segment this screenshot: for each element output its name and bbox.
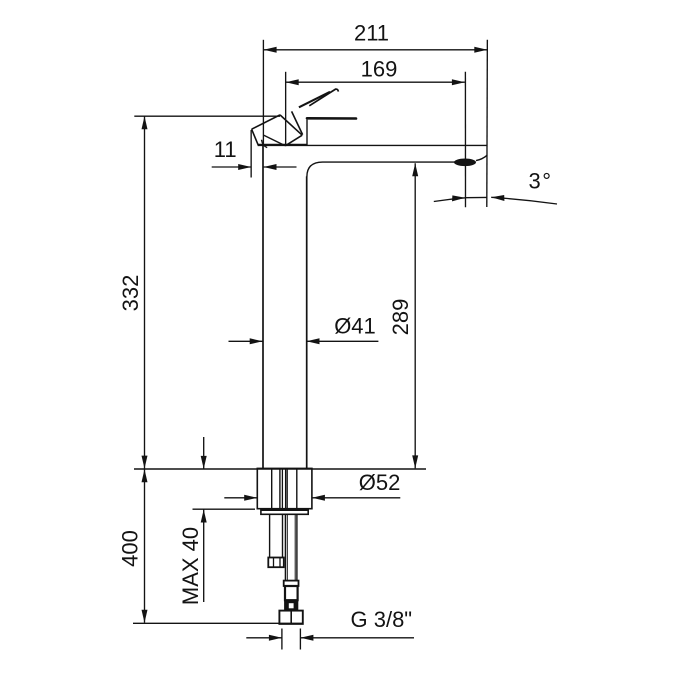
G3/8 nut center line <box>290 612 292 624</box>
spout underside corner arc <box>307 162 323 177</box>
stud nut <box>268 558 284 568</box>
flange internal line 5 <box>286 470 288 509</box>
dimension MAX40 lower line <box>203 510 205 603</box>
svg-text:332: 332 <box>118 275 143 312</box>
flange internal line 3 <box>281 470 283 509</box>
dimension 169 line <box>286 81 465 83</box>
hose fitting body <box>285 586 298 600</box>
counter line <box>134 468 426 470</box>
dimension G3/8 witness right <box>299 629 301 650</box>
hose crimp collar <box>284 581 299 586</box>
svg-text:MAX 40: MAX 40 <box>178 527 203 605</box>
flange internal line 6 <box>296 470 298 509</box>
stud nut facet line 2 <box>279 558 281 567</box>
body step under lever <box>306 120 308 146</box>
extension line 211 right / spout tip face / 3deg line <box>486 40 489 207</box>
dimension G3/8 arrow right (pointing left) <box>300 635 313 641</box>
angle 3deg arc right segment <box>491 197 557 204</box>
dimension G3/8 arrow left (pointing right) <box>269 635 282 641</box>
extension line 211 left <box>262 40 264 146</box>
faucet riser right edge <box>306 176 308 468</box>
dimension MAX40 arrow up <box>201 510 207 523</box>
handle bottom thick line <box>258 144 306 146</box>
dimension 332 arrow up <box>142 116 148 129</box>
dimension 11 arrow right (pointing left) <box>264 164 277 170</box>
dimension G3/8 witness left <box>281 629 283 650</box>
handle interior line <box>264 135 285 145</box>
dimension D41 left tail <box>229 340 263 342</box>
dimension G3/8 left tail <box>246 637 282 639</box>
handle edge top-right A-E <box>280 115 302 135</box>
supply hose inner right <box>294 514 296 580</box>
hose thread section dark <box>284 600 298 610</box>
dimension 289 arrow down <box>412 455 418 468</box>
hose end datum line <box>133 622 303 624</box>
dimension D52 right tail <box>312 497 400 499</box>
angle 3deg arrow left (pointing right at line) <box>452 195 465 201</box>
dimension 289 line <box>414 163 416 468</box>
dimension 11 left tail <box>212 166 252 168</box>
svg-text:289: 289 <box>388 299 413 336</box>
dimension 11 witness line <box>250 130 252 178</box>
dimension 289 arrow up <box>412 163 418 176</box>
G3/8 connection nut <box>279 611 302 624</box>
flange internal line 4 <box>285 470 287 509</box>
handle open-position steep edge <box>292 111 303 134</box>
gasket lip <box>261 510 308 514</box>
svg-text:211: 211 <box>354 21 389 46</box>
flange internal line 1 <box>271 470 273 509</box>
svg-text:400: 400 <box>117 530 142 567</box>
dimension 332 line <box>144 116 146 468</box>
dimension 11 arrow left (pointing right) <box>238 164 251 170</box>
svg-text:G 3/8": G 3/8" <box>351 607 413 632</box>
dimension G3/8 right tail <box>300 637 414 639</box>
mounting stud tube right edge <box>282 514 284 557</box>
svg-text:Ø41: Ø41 <box>334 313 376 338</box>
angle 3deg arc left segment <box>434 198 466 202</box>
dimension 211 line <box>264 49 488 51</box>
base flange <box>257 468 312 508</box>
extension line handle top <box>134 115 280 117</box>
hose thread white window <box>289 603 294 608</box>
aerator <box>454 159 476 167</box>
flange internal line 2 <box>279 470 281 509</box>
extension line 169 right / aerator axis / 3deg reference <box>464 72 466 207</box>
dimension 211 arrow left <box>264 47 277 53</box>
open lever lower line <box>299 92 330 108</box>
handle interior arc <box>262 140 268 148</box>
handle edge left B-C <box>252 129 259 146</box>
supply hose outer left <box>284 514 286 580</box>
handle edge top-left A-B <box>252 115 280 129</box>
angle 3deg connecting segment <box>465 196 487 198</box>
svg-text:Ø52: Ø52 <box>359 470 401 495</box>
extension line 169 left <box>285 72 287 146</box>
dimension D41 arrow right (pointing left) <box>307 338 320 344</box>
spout bottom line <box>323 161 456 163</box>
dimension 400 arrow down <box>142 610 148 623</box>
dimension 400 arrow up <box>142 469 148 482</box>
handle edge right E-D <box>285 135 302 146</box>
dimension 11 right tail <box>264 166 297 168</box>
dimension D52 arrow left (pointing right) <box>244 495 257 501</box>
supply hose outer right <box>296 514 298 580</box>
spout tip underside curve to aerator <box>476 155 487 160</box>
dimension MAX40 lower tick line <box>193 508 256 510</box>
faucet riser left edge <box>262 146 264 469</box>
dimension D52 arrow right (pointing left) <box>312 495 325 501</box>
angle 3deg arrow right (pointing left at line) <box>491 195 504 201</box>
supply hose inner left <box>286 514 288 580</box>
svg-text:11: 11 <box>214 137 237 162</box>
dimension D41 arrow left (pointing right) <box>250 338 263 344</box>
dimension 332 arrow down <box>142 456 148 469</box>
dimension D52 left tail <box>224 497 257 499</box>
dimension 211 arrow right <box>474 47 487 53</box>
dimension MAX40 arrow down <box>201 456 207 469</box>
open lever upper line with tip hook <box>309 89 338 106</box>
dimension MAX40 upper arrow line <box>203 437 205 469</box>
dimension D41 right tail <box>307 340 379 342</box>
spout top line <box>307 144 488 146</box>
svg-text:3°: 3° <box>529 169 553 194</box>
stud nut facet line 1 <box>273 558 275 567</box>
dimension 169 arrow right <box>452 79 465 85</box>
mounting stud tube left edge <box>269 514 271 557</box>
dimension 169 arrow left <box>286 79 299 85</box>
svg-text:169: 169 <box>361 56 398 81</box>
closed lever (thick rounded) <box>307 117 356 120</box>
dimension 400 line <box>144 469 146 623</box>
